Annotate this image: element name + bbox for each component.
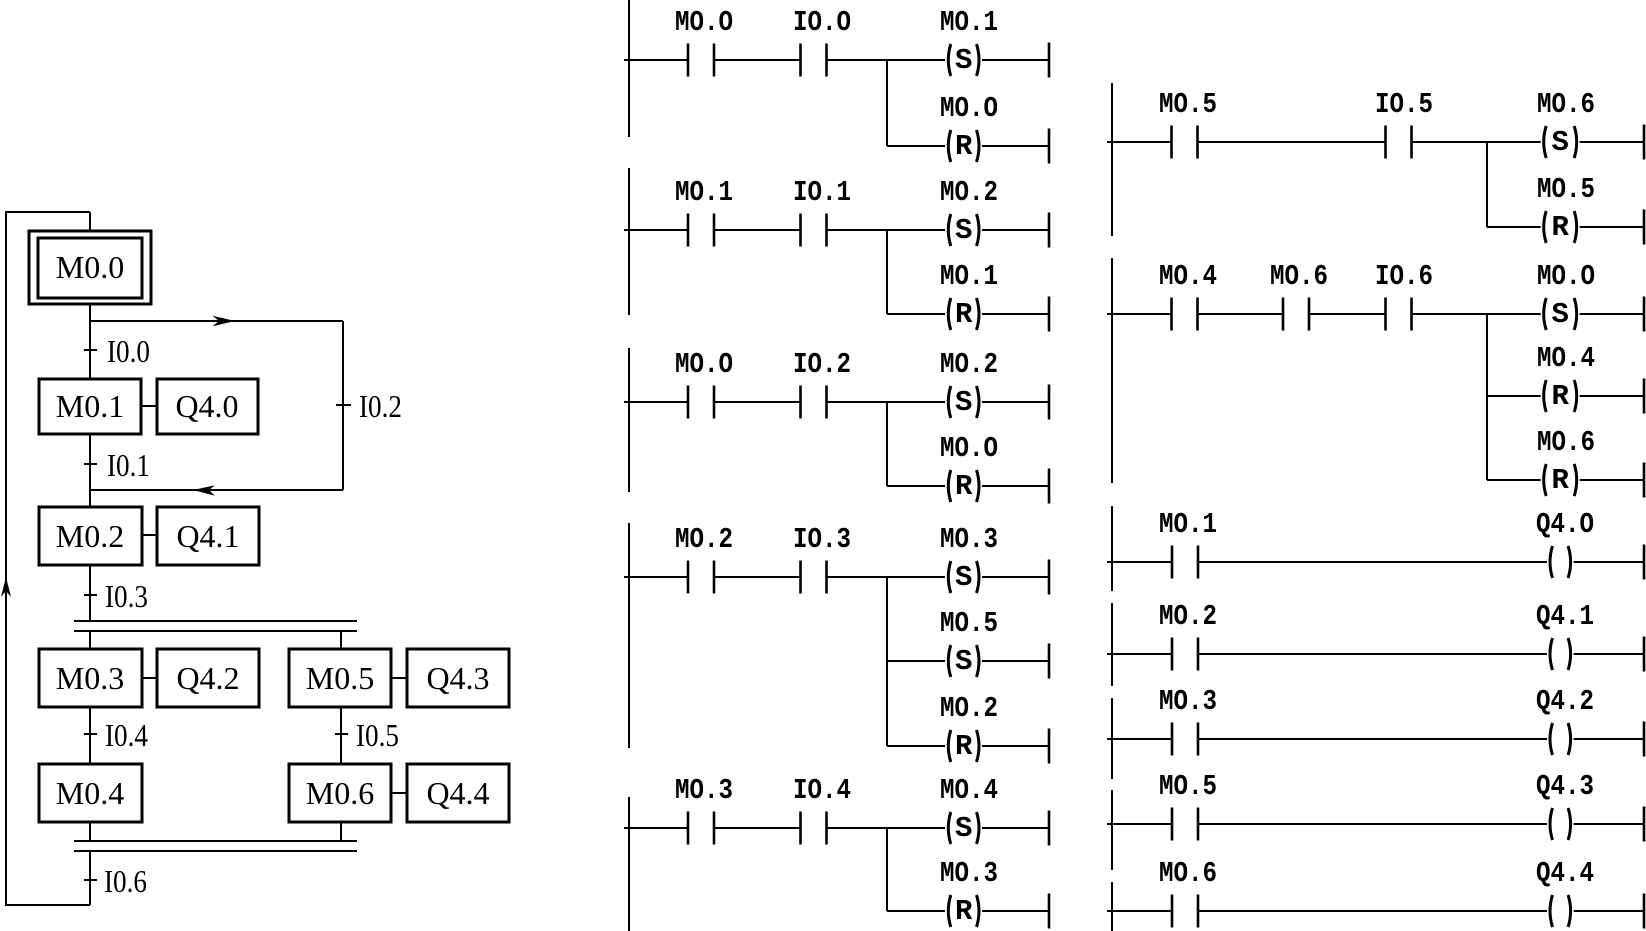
wire I0.2 loop vertical	[342, 321, 344, 490]
svg-text:Q4.1: Q4.1	[1536, 600, 1594, 633]
wire coil branch	[1487, 395, 1541, 397]
wire coil branch vertical	[886, 60, 888, 146]
coil M0.6	[1544, 464, 1547, 496]
contact M0.5	[1171, 808, 1174, 841]
contact I0.4	[799, 812, 802, 845]
right end bar	[1048, 894, 1051, 929]
coil (S) M0.4	[948, 812, 951, 844]
svg-text:Q4.2: Q4.2	[1536, 685, 1594, 718]
contact I0.6	[1384, 298, 1387, 331]
svg-text:MO.2: MO.2	[675, 523, 733, 556]
right ladder power rail	[1111, 83, 1113, 236]
svg-text:S: S	[955, 812, 972, 845]
action box Q4.1	[157, 507, 259, 565]
svg-text:Q4.3: Q4.3	[1536, 770, 1594, 803]
wire coil to right bar	[982, 145, 1049, 147]
transition tick I0.2	[336, 404, 351, 406]
svg-text:S: S	[955, 561, 972, 594]
right end bar	[1048, 644, 1051, 679]
svg-text:MO.6: MO.6	[1537, 426, 1595, 459]
svg-text:M0.5: M0.5	[306, 660, 374, 696]
wire coil to right bar	[1580, 226, 1644, 228]
wire M0.4 to convergence	[89, 822, 91, 841]
svg-text:M0.2: M0.2	[56, 518, 124, 554]
right end bar	[1048, 469, 1051, 504]
svg-text:I0.3: I0.3	[105, 578, 148, 614]
contact M0.1	[1171, 546, 1174, 579]
wire coil to right bar	[1574, 823, 1644, 825]
svg-text:R: R	[955, 298, 973, 331]
wire coil branch	[887, 145, 945, 147]
coil (S) M0.2	[948, 214, 951, 246]
svg-text:R: R	[1551, 464, 1569, 497]
wire rung	[1107, 561, 1172, 563]
transition tick I0.3	[84, 594, 97, 596]
arrow left on loop return	[193, 485, 215, 496]
coil M0.4	[1544, 380, 1547, 412]
wire convergence to bottom	[89, 851, 91, 905]
coil (S) M0.1	[948, 44, 951, 76]
svg-text:MO.2: MO.2	[1159, 600, 1217, 633]
wire M0.3 to Q4.2	[142, 677, 157, 679]
wire coil to right bar	[982, 313, 1049, 315]
contact I0.5	[1384, 126, 1387, 159]
coil Q4.3	[1550, 808, 1553, 840]
svg-text:IO.6: IO.6	[1375, 260, 1433, 293]
wire rung	[624, 576, 688, 578]
wire branch to I0.2 loop top	[90, 320, 343, 322]
wire divergence to M0.3	[89, 631, 91, 649]
initial step box M0.0 outer	[29, 231, 151, 304]
right end bar	[1643, 807, 1646, 842]
coil (R) M0.0	[948, 470, 951, 502]
wire M0.6 to Q4.4	[391, 792, 407, 794]
svg-text:Q4.1: Q4.1	[176, 518, 239, 554]
wire coil to right bar	[982, 485, 1049, 487]
svg-text:IO.5: IO.5	[1375, 88, 1433, 121]
right end bar	[1048, 560, 1051, 595]
coil (S) M0.5	[948, 645, 951, 677]
initial step box M0.0 inner	[38, 238, 142, 298]
wire rung	[1107, 823, 1172, 825]
svg-text:MO.3: MO.3	[940, 857, 998, 890]
convergence double line lower	[74, 850, 357, 852]
coil (S) M0.2	[948, 386, 951, 418]
svg-text:I0.4: I0.4	[105, 717, 148, 753]
svg-text:IO.O: IO.O	[793, 6, 851, 39]
wire coil to right bar	[982, 229, 1049, 231]
right end bar	[1048, 385, 1051, 420]
coil (R) M0.1	[948, 298, 951, 330]
right end bar	[1643, 637, 1646, 672]
wire stem M0.3 to M0.4	[89, 707, 91, 764]
svg-text:R: R	[955, 895, 973, 928]
svg-text:MO.2: MO.2	[940, 176, 998, 209]
coil Q4.0	[1550, 546, 1553, 578]
contact M0.4	[1170, 298, 1173, 331]
svg-text:S: S	[1551, 126, 1568, 159]
action box Q4.0	[157, 379, 258, 434]
wire coil to right bar	[982, 660, 1049, 662]
coil Q4.2	[1550, 723, 1553, 755]
svg-text:I0.1: I0.1	[107, 447, 150, 483]
contact I0.0	[799, 44, 802, 77]
svg-text:S: S	[955, 645, 972, 678]
action box Q4.4	[407, 764, 509, 822]
contact M0.0	[687, 386, 690, 419]
step box M0.4	[39, 764, 142, 822]
svg-text:MO.1: MO.1	[675, 176, 733, 209]
wire coil to right bar	[982, 745, 1049, 747]
wire coil to right bar	[1580, 479, 1644, 481]
svg-text:M0.3: M0.3	[56, 660, 124, 696]
wire coil to right bar	[1574, 561, 1644, 563]
wire coil to right bar	[1574, 910, 1644, 912]
svg-text:IO.2: IO.2	[793, 348, 851, 381]
wire coil branch	[887, 910, 945, 912]
wire left feedback vertical	[5, 213, 7, 905]
svg-text:MO.6: MO.6	[1537, 88, 1595, 121]
svg-text:I0.5: I0.5	[356, 717, 399, 753]
wire M0.5 to Q4.3	[391, 677, 407, 679]
wire coil branch vertical	[886, 230, 888, 314]
coil M0.0	[1544, 298, 1547, 330]
right end bar	[1643, 125, 1646, 160]
wire coil branch	[1487, 226, 1541, 228]
svg-text:S: S	[955, 386, 972, 419]
svg-text:S: S	[955, 214, 972, 247]
right end bar	[1048, 729, 1051, 764]
right end bar	[1643, 210, 1646, 245]
wire rung	[624, 229, 688, 231]
wire coil branch	[887, 660, 945, 662]
svg-text:MO.2: MO.2	[940, 348, 998, 381]
wire coil to right bar	[1574, 653, 1644, 655]
svg-text:MO.3: MO.3	[1159, 685, 1217, 718]
wire stem M0.1 to M0.2	[89, 434, 91, 507]
convergence double line upper	[74, 840, 357, 842]
svg-text:MO.O: MO.O	[940, 92, 998, 125]
transition tick I0.1	[84, 463, 97, 465]
svg-text:M0.4: M0.4	[56, 775, 124, 811]
svg-text:R: R	[1551, 380, 1569, 413]
wire rung	[624, 59, 688, 61]
step box M0.5	[289, 649, 391, 707]
wire coil to right bar	[982, 910, 1049, 912]
step box M0.2	[39, 507, 142, 565]
wire coil to right bar	[1580, 395, 1644, 397]
svg-text:MO.5: MO.5	[1537, 173, 1595, 206]
svg-text:I0.2: I0.2	[359, 388, 402, 424]
coil Q4.4	[1550, 895, 1553, 927]
coil Q4.1	[1550, 638, 1553, 670]
svg-text:MO.4: MO.4	[940, 774, 998, 807]
wire rung	[624, 401, 688, 403]
wire stem M0.5 to M0.6	[340, 707, 342, 764]
right end bar	[1643, 379, 1646, 414]
svg-text:M0.6: M0.6	[306, 775, 374, 811]
wire coil branch vertical	[886, 402, 888, 486]
wire coil branch	[887, 745, 945, 747]
wire coil branch vertical	[1486, 142, 1488, 227]
divergence double line lower	[74, 630, 357, 632]
coil (R) M0.2	[948, 730, 951, 762]
wire rung	[1107, 738, 1172, 740]
svg-text:MO.1: MO.1	[940, 6, 998, 39]
transition tick I0.5	[335, 733, 348, 735]
svg-text:Q4.4: Q4.4	[426, 775, 489, 811]
svg-text:MO.O: MO.O	[675, 348, 733, 381]
svg-text:MO.6: MO.6	[1159, 857, 1217, 890]
step box M0.1	[39, 379, 141, 434]
wire coil to right bar	[982, 576, 1049, 578]
action box Q4.2	[157, 649, 259, 707]
right end bar	[1048, 297, 1051, 332]
wire coil branch	[887, 485, 945, 487]
svg-text:IO.4: IO.4	[793, 774, 851, 807]
svg-text:MO.4: MO.4	[1159, 260, 1217, 293]
svg-text:Q4.4: Q4.4	[1536, 857, 1594, 890]
middle ladder power rail	[628, 0, 630, 137]
wire rung	[1107, 313, 1172, 315]
wire coil to right bar	[982, 827, 1049, 829]
transition tick I0.4	[84, 733, 97, 735]
arrow right on loop top	[213, 316, 236, 327]
svg-text:MO.O: MO.O	[675, 6, 733, 39]
right end bar	[1643, 463, 1646, 498]
svg-text:Q4.0: Q4.0	[175, 388, 238, 424]
svg-text:MO.4: MO.4	[1537, 342, 1595, 375]
wire coil to right bar	[1580, 141, 1644, 143]
svg-text:IO.1: IO.1	[793, 176, 851, 209]
wire coil branch vertical	[886, 577, 888, 746]
svg-text:MO.2: MO.2	[940, 692, 998, 725]
svg-text:MO.5: MO.5	[1159, 770, 1217, 803]
wire coil branch vertical	[1486, 314, 1488, 480]
contact M0.1	[687, 214, 690, 247]
step box M0.6	[289, 764, 391, 822]
svg-text:I0.0: I0.0	[107, 333, 150, 369]
wire stem M0.0 to M0.1	[89, 304, 91, 379]
svg-text:R: R	[1551, 211, 1569, 244]
wire rung	[1107, 653, 1172, 655]
wire rung	[624, 827, 688, 829]
svg-text:M0.1: M0.1	[56, 388, 124, 424]
svg-text:IO.3: IO.3	[793, 523, 851, 556]
contact I0.1	[799, 214, 802, 247]
coil (S) M0.3	[948, 561, 951, 593]
right end bar	[1643, 894, 1646, 929]
right end bar	[1048, 213, 1051, 248]
svg-text:MO.5: MO.5	[1159, 88, 1217, 121]
right end bar	[1048, 129, 1051, 164]
contact I0.2	[799, 386, 802, 419]
svg-text:MO.O: MO.O	[1537, 260, 1595, 293]
svg-text:S: S	[1551, 298, 1568, 331]
contact M0.3	[1171, 723, 1174, 756]
wire coil to right bar	[982, 59, 1049, 61]
svg-text:I0.6: I0.6	[104, 863, 147, 899]
wire I0.2 loop return	[90, 489, 343, 491]
wire rung	[1107, 141, 1172, 143]
svg-text:MO.6: MO.6	[1270, 260, 1328, 293]
action box Q4.3	[407, 649, 509, 707]
coil (R) M0.0	[948, 130, 951, 162]
right end bar	[1643, 545, 1646, 580]
svg-text:MO.1: MO.1	[940, 260, 998, 293]
transition tick I0.0	[84, 349, 97, 351]
divergence double line upper	[74, 620, 357, 622]
svg-text:MO.O: MO.O	[940, 432, 998, 465]
svg-text:MO.3: MO.3	[940, 523, 998, 556]
wire coil branch	[1487, 479, 1541, 481]
contact M0.6	[1171, 895, 1174, 928]
wire divergence to M0.5	[340, 631, 342, 649]
wire stem above M0.0	[89, 212, 91, 231]
contact M0.3	[687, 812, 690, 845]
svg-text:R: R	[955, 730, 973, 763]
step box M0.3	[39, 649, 142, 707]
wire M0.6 to convergence	[340, 822, 342, 841]
svg-text:MO.1: MO.1	[1159, 508, 1217, 541]
wire coil to right bar	[982, 401, 1049, 403]
wire coil to right bar	[1580, 313, 1644, 315]
svg-text:Q4.3: Q4.3	[426, 660, 489, 696]
contact M0.2	[1171, 638, 1174, 671]
svg-text:Q4.2: Q4.2	[176, 660, 239, 696]
wire rung	[1107, 910, 1172, 912]
right end bar	[1048, 43, 1051, 78]
contact M0.6	[1282, 298, 1285, 331]
wire M0.1 to Q4.0	[141, 405, 157, 407]
wire bottom feedback horizontal	[5, 904, 90, 906]
right end bar	[1643, 297, 1646, 332]
coil M0.5	[1544, 211, 1547, 243]
wire top feedback horizontal	[5, 211, 90, 213]
coil (R) M0.3	[948, 895, 951, 927]
svg-text:MO.3: MO.3	[675, 774, 733, 807]
contact M0.0	[687, 44, 690, 77]
contact I0.3	[799, 561, 802, 594]
svg-text:M0.0: M0.0	[56, 249, 124, 285]
wire coil branch	[887, 313, 945, 315]
contact M0.5	[1170, 126, 1173, 159]
right end bar	[1643, 722, 1646, 757]
svg-text:MO.5: MO.5	[940, 607, 998, 640]
wire M0.2 to Q4.1	[142, 534, 157, 536]
wire coil to right bar	[1574, 738, 1644, 740]
svg-text:S: S	[955, 44, 972, 77]
arrow up on feedback wire	[1, 577, 11, 597]
transition tick I0.6	[84, 879, 97, 881]
svg-text:R: R	[955, 470, 973, 503]
wire stem M0.2 to divergence	[89, 565, 91, 621]
svg-text:Q4.O: Q4.O	[1536, 508, 1594, 541]
right end bar	[1048, 811, 1051, 846]
coil M0.6	[1544, 126, 1547, 158]
contact M0.2	[687, 561, 690, 594]
svg-text:R: R	[955, 130, 973, 163]
wire coil branch vertical	[886, 828, 888, 911]
